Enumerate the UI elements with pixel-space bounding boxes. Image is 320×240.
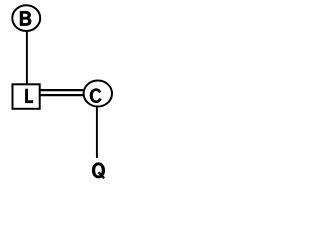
wire L-C upper [40,89,86,91]
node B label [20,11,31,25]
wire B-L [26,30,28,85]
node B circle [12,5,40,31]
node Q label [92,163,105,179]
wire L-C lower [40,94,86,96]
node C label [90,89,102,103]
node L label [25,89,33,103]
wire C-Q [96,106,98,158]
node C circle [84,81,112,107]
node L box [13,84,40,109]
